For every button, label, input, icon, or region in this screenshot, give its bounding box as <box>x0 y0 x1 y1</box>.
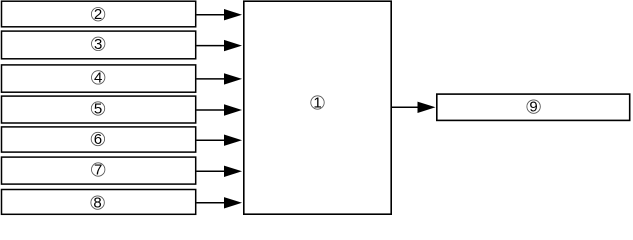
svg-text:9: 9 <box>529 99 537 116</box>
svg-text:7: 7 <box>94 162 102 179</box>
svg-text:3: 3 <box>94 36 102 53</box>
block 7 (input box) <box>2 157 196 184</box>
arrow from block 2 to block 1 <box>197 9 243 20</box>
block 6 (input box) <box>2 127 196 152</box>
arrow from block 4 to block 1 <box>197 73 243 84</box>
block 2 (input box) <box>2 1 196 27</box>
svg-text:4: 4 <box>94 69 102 86</box>
arrow from block 1 to block 9 <box>392 102 436 113</box>
svg-text:1: 1 <box>313 95 321 112</box>
block 3 (input box) <box>2 31 196 59</box>
svg-text:6: 6 <box>94 131 102 148</box>
arrow from block 7 to block 1 <box>197 166 243 177</box>
block 5 (input box) <box>2 96 196 123</box>
svg-text:8: 8 <box>93 195 101 212</box>
arrow from block 8 to block 1 <box>197 197 243 208</box>
arrow from block 6 to block 1 <box>197 135 243 146</box>
arrow from block 3 to block 1 <box>197 40 243 51</box>
block 8 (input box) <box>2 190 196 215</box>
svg-text:2: 2 <box>94 6 102 23</box>
block 4 (input box) <box>2 65 196 92</box>
svg-text:5: 5 <box>94 101 102 118</box>
block 1 (central processing box) <box>244 1 391 214</box>
block 9 (output box) <box>437 94 630 120</box>
arrow from block 5 to block 1 <box>197 104 243 115</box>
